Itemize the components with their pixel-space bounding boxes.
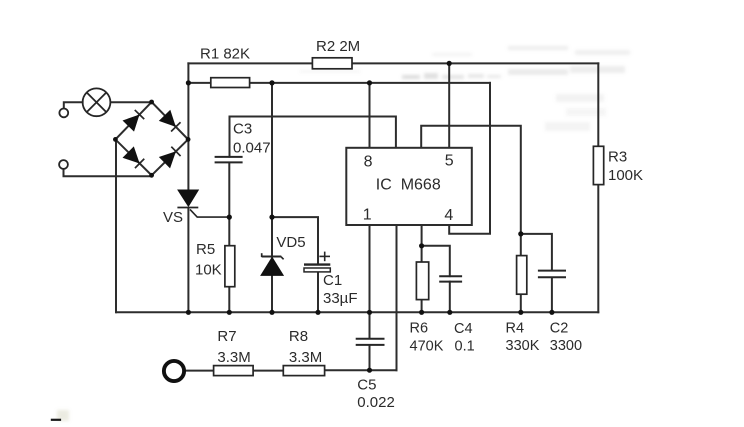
diode bridge D1 top-left [123, 110, 144, 131]
wire terminal1 to lamp [64, 102, 83, 108]
stray ink dash bottom left [51, 419, 61, 421]
bridge arm top-right [152, 102, 189, 139]
node dot pin5 top [447, 61, 452, 66]
capacitor C1 (electrolytic) [304, 252, 330, 272]
svg-text:0.1: 0.1 [455, 338, 475, 354]
svg-text:10K: 10K [195, 261, 222, 278]
svg-text:VS: VS [163, 209, 183, 226]
node dot R6 C4 [419, 243, 424, 248]
wire touch plate to R7 [185, 370, 213, 372]
wire pin1 lead to ground [369, 225, 371, 312]
node dot rail R5 [227, 310, 232, 315]
wire pin2 lead [396, 225, 398, 370]
bridge arm bottom-left [115, 139, 151, 175]
resistor R3 [593, 146, 603, 184]
wire main vertical (bridge+ to VS anode) [187, 63, 189, 190]
wire ground rail [116, 311, 598, 313]
node dot bridge right [186, 137, 191, 142]
node dot wire2 left [186, 80, 191, 85]
svg-text:R4: R4 [506, 321, 525, 337]
svg-text:5: 5 [445, 153, 454, 170]
svg-text:0.022: 0.022 [357, 394, 395, 411]
wire C4 bottom lead [449, 282, 451, 313]
wire node to C2 [521, 234, 552, 270]
wire top rail [188, 62, 598, 64]
svg-text:0.047: 0.047 [233, 140, 271, 157]
wire pin3 lead [421, 225, 423, 246]
svg-text:VD5: VD5 [276, 234, 305, 251]
svg-text:C3: C3 [233, 121, 252, 138]
wire VD5 bottom lead [271, 276, 273, 313]
bridge arm bottom-right [152, 139, 189, 175]
faint watermark smudge below top wire [300, 66, 625, 79]
svg-text:1: 1 [363, 207, 372, 224]
node dot rail R4 [518, 310, 523, 315]
node dot R4 C2 [518, 231, 523, 236]
wire C3 top to pin7 [230, 117, 396, 157]
resistor R8 [283, 366, 324, 376]
resistor R6 [416, 262, 428, 300]
wire C1 bottom lead [317, 272, 319, 313]
wire VS cathode down to ground rail [187, 208, 189, 312]
op-amp-style IC U1 M668 box [346, 148, 472, 225]
node dot rail C2 [549, 310, 554, 315]
wire R5 bottom lead [228, 287, 230, 313]
wire C3 bottom to gate node [228, 163, 230, 218]
wire C2 bottom lead [551, 278, 553, 313]
diode bridge D3 bottom-left [123, 147, 144, 168]
diode VD5 [261, 253, 284, 275]
diode bridge D2 top-right [160, 111, 181, 132]
terminal 2 [59, 160, 68, 169]
wire R7 to R8 [253, 370, 283, 372]
resistor R4 [517, 256, 527, 295]
wire terminal2 to bridge bottom [64, 169, 152, 176]
wire pin5 lead [448, 63, 450, 147]
thyristor VS [177, 190, 229, 217]
svg-text:C2: C2 [550, 320, 569, 336]
wire R4 top lead [520, 234, 522, 256]
svg-text:4: 4 [444, 207, 453, 224]
node dot bridge top [149, 100, 154, 105]
resistor R7 [214, 366, 254, 376]
faint smudge bottom left edge [57, 410, 69, 421]
node dot bridge bottom [149, 173, 154, 178]
bridge arm top-left [115, 102, 151, 139]
wire C5 top lead [369, 312, 371, 338]
faint watermark smudge above top wire [432, 46, 630, 56]
wire pin6 to R4 riser [421, 126, 521, 234]
node dot VD5 top [269, 215, 274, 220]
svg-text:8: 8 [364, 153, 373, 170]
node dot pin8 top [367, 80, 372, 85]
node dot rail C4 [447, 310, 452, 315]
resistor R5 [225, 246, 235, 287]
wire left vertical [115, 139, 117, 312]
node dot rail VD5 [269, 310, 274, 315]
svg-text:330K: 330K [506, 338, 540, 354]
wire lamp to bridge top [111, 101, 152, 103]
capacitor C2 [538, 271, 566, 278]
svg-text:C5: C5 [357, 377, 376, 394]
node dot rail pin1 [367, 310, 372, 315]
capacitor C4 [439, 276, 462, 281]
node dot gate node [227, 215, 232, 220]
svg-text:100K: 100K [608, 167, 643, 184]
capacitor C3 [215, 157, 243, 163]
svg-text:R6: R6 [410, 320, 429, 336]
svg-text:3.3M: 3.3M [289, 349, 322, 366]
node dot rail VS [186, 310, 191, 315]
svg-text:R7: R7 [217, 328, 236, 345]
node dot C5 bottom [367, 368, 372, 373]
node dot VD5 riser top [269, 80, 274, 85]
wire R6 bottom lead [421, 300, 423, 313]
faint watermark smudge right column [545, 94, 606, 131]
svg-text:470K: 470K [410, 338, 444, 354]
wire C5 bottom lead [369, 345, 371, 370]
svg-text:3.3M: 3.3M [217, 349, 250, 366]
wire VD5 top lead [271, 217, 273, 257]
wire VD5 riser [271, 83, 273, 217]
svg-text:C1: C1 [323, 272, 342, 289]
wire R3 bottom lead [597, 185, 599, 313]
wire second rail (R1 row) [188, 82, 490, 84]
wire node B to C1 [272, 217, 318, 263]
resistor R1 [211, 78, 250, 88]
resistor R2 [312, 58, 352, 69]
lamp [83, 88, 111, 116]
touch plate electrode [164, 361, 184, 381]
svg-text:R8: R8 [289, 328, 308, 345]
wire R3 top lead [597, 63, 599, 146]
wire node to C4 [422, 246, 450, 276]
svg-text:3300: 3300 [550, 338, 582, 354]
diode bridge D4 bottom-right [160, 146, 181, 167]
svg-text:R3: R3 [608, 149, 627, 166]
capacitor C5 [356, 339, 385, 345]
node dot rail R6 [419, 310, 424, 315]
svg-text:R1 82K: R1 82K [200, 46, 250, 63]
svg-text:C4: C4 [454, 321, 473, 337]
wire pin4 riser [449, 83, 490, 234]
svg-text:R2 2M: R2 2M [316, 38, 360, 55]
wire pin8 lead [369, 83, 371, 148]
wire R6 top lead [421, 246, 423, 262]
svg-text:IC M668: IC M668 [376, 177, 441, 194]
terminal 1 [59, 109, 68, 118]
svg-text:R5: R5 [196, 241, 215, 258]
svg-text:33µF: 33µF [323, 290, 358, 307]
wire R5 top lead [228, 217, 230, 246]
wire touch node horizontal [325, 369, 397, 371]
node dot rail C1 [315, 310, 320, 315]
wire R4 bottom lead [520, 294, 522, 312]
node dot bridge left [113, 137, 118, 142]
